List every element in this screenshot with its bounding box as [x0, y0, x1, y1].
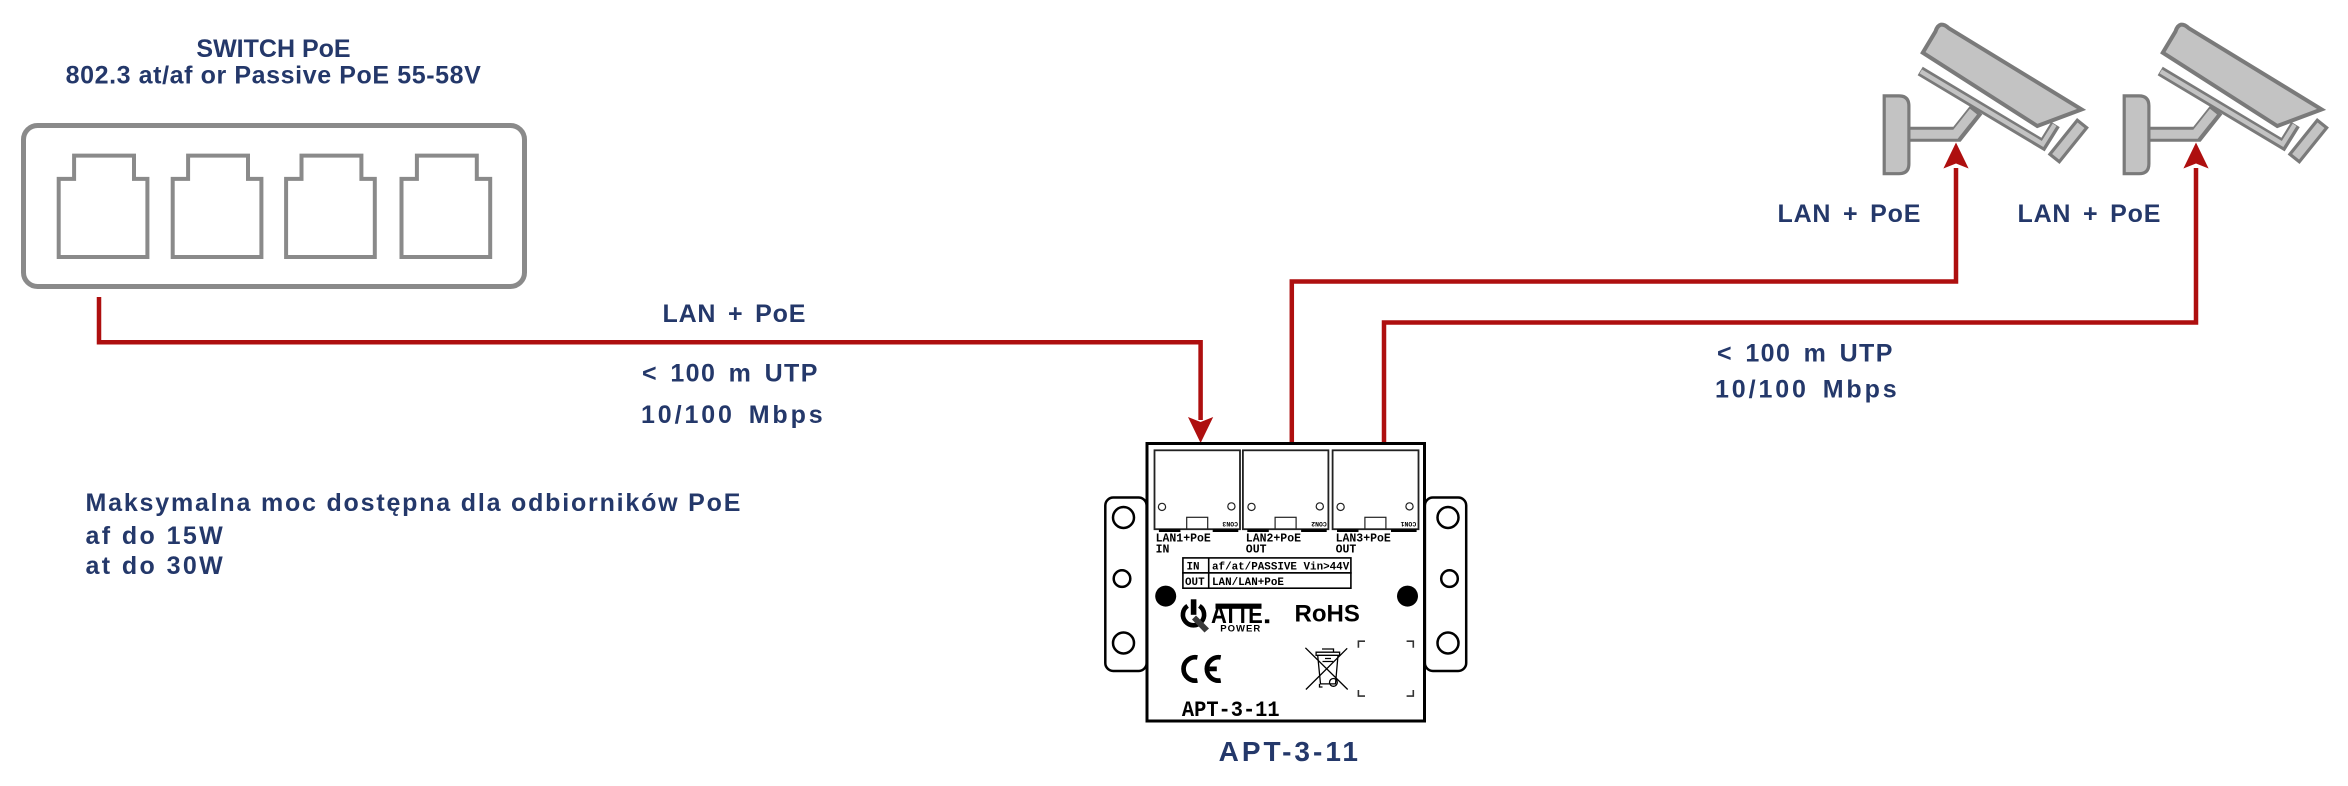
svg-text:OUT: OUT — [1336, 543, 1357, 556]
device RJ45 port CON3 — [1155, 450, 1241, 529]
ATTE logo power bar — [1191, 599, 1197, 615]
spec table row 2 — [1183, 573, 1351, 588]
right flange hole 1 — [1438, 507, 1459, 528]
switch RJ45 port 4 — [402, 156, 491, 257]
arrowhead into camera 1 — [1943, 143, 1968, 169]
svg-text:< 100 m UTP: < 100 m UTP — [642, 359, 819, 387]
port2 latch tab — [1275, 517, 1296, 529]
port1 latch tab — [1187, 517, 1208, 529]
svg-text:APT-3-11: APT-3-11 — [1182, 698, 1280, 723]
svg-text:af do 15W: af do 15W — [86, 522, 226, 550]
svg-text:SWITCH PoE: SWITCH PoE — [196, 35, 350, 63]
svg-text:802.3 at/af or Passive PoE 55-: 802.3 at/af or Passive PoE 55-58V — [66, 62, 482, 90]
WEEE cross — [1305, 648, 1347, 690]
right flange hole 2 — [1441, 570, 1458, 587]
CE mark C — [1184, 657, 1198, 680]
left rivet — [1155, 586, 1176, 607]
wire from LAN3 port to camera 2 — [1384, 168, 2196, 443]
svg-text:OUT: OUT — [1185, 577, 1205, 589]
spec table column divider — [1208, 558, 1210, 588]
switch RJ45 port 2 — [173, 156, 262, 257]
APT-3-11 device body — [1147, 444, 1425, 722]
svg-text:< 100 m UTP: < 100 m UTP — [1717, 340, 1894, 368]
svg-text:LAN + PoE: LAN + PoE — [1778, 200, 1922, 228]
arrowhead into LAN1 port — [1188, 417, 1213, 443]
ATTE logo letters — [1211, 601, 1269, 629]
left flange hole 2 — [1114, 570, 1131, 587]
switch RJ45 port 3 — [286, 156, 375, 257]
APT-3-11 right mounting flange — [1425, 498, 1466, 672]
svg-text:10/100 Mbps: 10/100 Mbps — [641, 401, 826, 429]
svg-text:at do 30W: at do 30W — [86, 552, 226, 580]
svg-text:Maksymalna moc dostępna dla od: Maksymalna moc dostępna dla odbiorników … — [86, 489, 743, 517]
svg-text:IN: IN — [1156, 543, 1170, 556]
svg-text:CON2: CON2 — [1311, 520, 1327, 527]
left flange hole 1 — [1113, 507, 1134, 528]
svg-text:CON1: CON1 — [1400, 520, 1416, 527]
svg-text:APT-3-11: APT-3-11 — [1219, 736, 1361, 767]
svg-text:IN: IN — [1187, 562, 1200, 574]
svg-text:RoHS: RoHS — [1295, 601, 1360, 628]
port2 screw holes — [1248, 503, 1255, 510]
svg-text:OUT: OUT — [1246, 543, 1267, 556]
device RJ45 port CON1 — [1333, 450, 1419, 529]
svg-text:10/100 Mbps: 10/100 Mbps — [1715, 376, 1900, 404]
device RJ45 port CON2 — [1243, 450, 1329, 529]
APT-3-11 left mounting flange — [1105, 498, 1146, 672]
svg-text:af/at/PASSIVE Vin>44V: af/at/PASSIVE Vin>44V — [1212, 562, 1350, 574]
ATTE logo power ring — [1183, 599, 1209, 632]
camera 2 — [2124, 25, 2327, 174]
svg-text:CON3: CON3 — [1222, 520, 1238, 527]
spec table row 1 — [1183, 558, 1351, 573]
CE mark E — [1207, 657, 1221, 680]
camera 1 — [1884, 25, 2087, 174]
arrowhead into camera 2 — [2183, 143, 2208, 169]
WEEE bin body — [1305, 648, 1347, 690]
dashed corner frame — [1358, 641, 1413, 696]
port3 latch tab — [1365, 517, 1386, 529]
right rivet — [1397, 586, 1418, 607]
switch PoE box — [24, 126, 525, 287]
svg-text:LAN + PoE: LAN + PoE — [2018, 200, 2162, 228]
svg-text:LAN/LAN+PoE: LAN/LAN+PoE — [1212, 577, 1284, 589]
wire LAN+PoE from switch to APT-3-11 — [99, 297, 1201, 420]
port3 screw holes — [1337, 503, 1344, 510]
switch RJ45 port 1 — [59, 156, 148, 257]
left flange hole 3 — [1113, 633, 1134, 654]
port1 screw holes — [1158, 503, 1165, 510]
wire from LAN2 port to camera 1 — [1292, 168, 1956, 443]
ATTE logo tail — [1192, 616, 1209, 633]
svg-text:POWER: POWER — [1220, 623, 1261, 634]
port feet — [1159, 529, 1181, 532]
right flange hole 3 — [1438, 633, 1459, 654]
svg-text:LAN + PoE: LAN + PoE — [663, 300, 807, 328]
